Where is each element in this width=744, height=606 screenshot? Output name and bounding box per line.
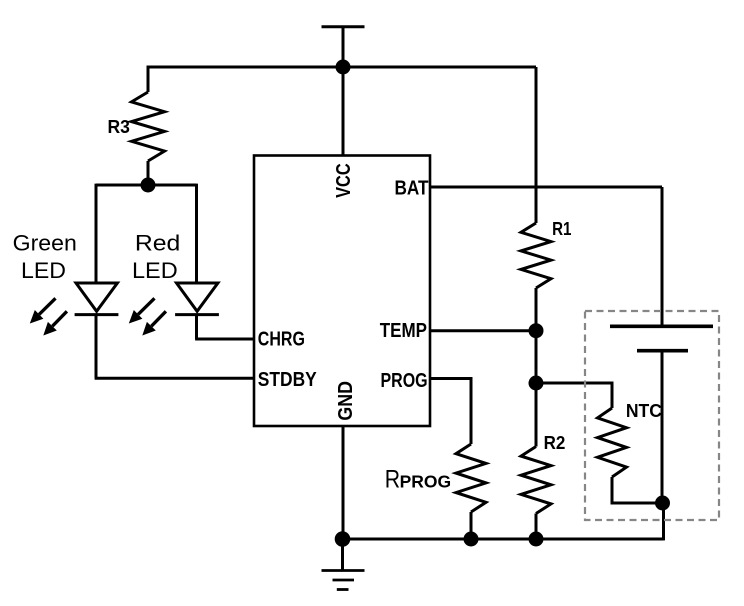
svg-text:Red: Red <box>135 231 180 255</box>
resistor R2 <box>521 447 551 514</box>
battery BT1 positive plate <box>610 324 713 328</box>
wire bottom ground rail <box>343 538 664 541</box>
node junction VCC rail <box>336 60 351 75</box>
wire R1 bottom lead <box>535 288 538 331</box>
wire NTC bottom lead <box>612 477 663 503</box>
svg-text:VCC: VCC <box>331 163 354 198</box>
wire top rail from R3 to R1 <box>147 66 536 69</box>
wire CHRG net to IC <box>195 338 254 341</box>
red LED emission arrow 2 <box>142 311 166 335</box>
node junction R2/NTC <box>529 376 544 391</box>
wire VCC stem from power bar to IC VCC pin <box>342 27 345 156</box>
diode green LED triangle <box>76 283 117 311</box>
wire R3 bottom lead <box>147 161 150 185</box>
svg-text:PROG: PROG <box>380 369 427 391</box>
svg-text:STDBY: STDBY <box>258 368 317 390</box>
resistor NTC thermistor <box>598 408 627 477</box>
wire R2 top lead <box>535 383 538 447</box>
diode red LED cathode bar <box>175 313 219 316</box>
node junction R3 / LED rail <box>141 178 156 193</box>
wire battery positive drop <box>661 187 664 325</box>
svg-text:R3: R3 <box>107 117 129 138</box>
svg-text:PROG: PROG <box>400 471 452 491</box>
svg-text:LED: LED <box>21 258 66 282</box>
wire battery to ground rail <box>662 503 665 540</box>
wire LED anode rail <box>96 184 197 187</box>
wire battery negative lead <box>661 351 664 503</box>
wire to NTC <box>536 383 612 408</box>
IC U1 battery charger body <box>254 156 430 427</box>
node junction ground <box>335 531 351 547</box>
green LED emission arrow 1 <box>30 298 56 323</box>
svg-text:CHRG: CHRG <box>258 328 305 350</box>
battery BT1 negative plate <box>637 349 688 353</box>
wire red LED cathode lead <box>195 315 198 339</box>
red LED emission arrow 1 <box>129 298 155 323</box>
wire green LED cathode lead <box>95 315 98 379</box>
svg-text:R: R <box>385 465 400 493</box>
node junction R2 bottom <box>529 532 544 547</box>
green LED emission arrow 2 <box>43 311 67 335</box>
node junction NTC / battery negative <box>655 496 670 511</box>
svg-text:TEMP: TEMP <box>380 318 427 341</box>
wire GND stem from IC <box>342 426 345 539</box>
wire TEMP net from IC <box>430 329 536 332</box>
svg-text:Green: Green <box>13 231 77 255</box>
ground symbol <box>322 539 365 590</box>
wire R3 top lead <box>147 66 150 92</box>
wire RPROG bottom lead <box>470 512 473 539</box>
svg-text:NTC: NTC <box>626 400 662 421</box>
wire green LED anode drop <box>95 184 98 283</box>
wire BAT net to battery <box>430 186 662 189</box>
svg-text:R1: R1 <box>552 218 571 239</box>
power symbol VCC rail bar <box>322 25 365 28</box>
svg-text:R2: R2 <box>544 433 566 454</box>
diode green LED cathode bar <box>75 313 119 316</box>
resistor RPROG <box>456 444 486 512</box>
svg-text:GND: GND <box>335 381 357 421</box>
node junction TEMP <box>529 323 544 338</box>
wire red LED anode drop <box>195 184 198 283</box>
wire STDBY net to IC <box>95 377 254 380</box>
diode red LED triangle <box>177 283 218 311</box>
wire PROG net from IC <box>430 379 471 445</box>
node junction RPROG bottom <box>464 532 479 547</box>
resistor R3 <box>132 92 165 161</box>
wire R1 top lead from rail <box>535 67 538 223</box>
svg-text:BAT: BAT <box>394 176 429 199</box>
resistor R1 <box>521 223 551 288</box>
svg-text:LED: LED <box>132 258 178 283</box>
battery/NTC dashed enclosure <box>585 311 719 520</box>
wire R2 bottom lead <box>535 514 538 540</box>
wire TEMP junction to R2 junction <box>535 331 538 383</box>
